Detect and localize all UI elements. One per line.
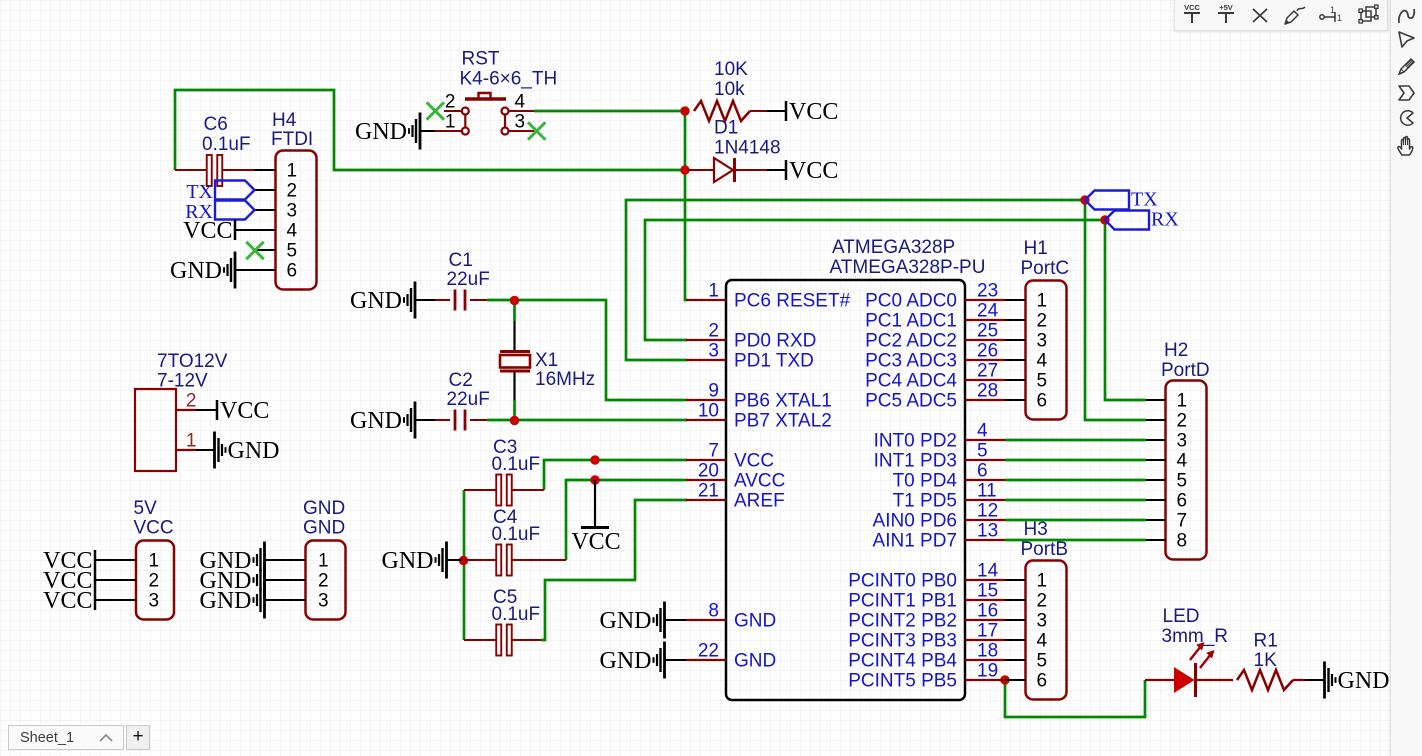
toolbar icon net port: [1318, 3, 1346, 27]
toolbar icon no-connect: [1248, 3, 1272, 27]
svg-text:RX: RX: [1151, 209, 1179, 231]
svg-text:TX: TX: [186, 181, 213, 203]
svg-text:VCC: VCC: [789, 158, 838, 184]
ground (GND header pin): [200, 562, 265, 599]
toolbar icon group: [1356, 3, 1382, 27]
svg-text:3: 3: [708, 341, 719, 362]
pin 21 (AREF): [686, 499, 726, 501]
svg-text:25: 25: [977, 321, 998, 342]
svg-text:AREF: AREF: [734, 491, 785, 512]
svg-text:VCC: VCC: [734, 451, 774, 472]
svg-text:5: 5: [1177, 471, 1188, 492]
crystal X1 16MHz: [500, 321, 595, 400]
svg-text:2: 2: [186, 391, 197, 412]
node AVCC junction: [590, 475, 599, 484]
svg-text:GND: GND: [350, 408, 402, 434]
svg-text:C1: C1: [449, 250, 473, 271]
svg-text:6: 6: [977, 461, 988, 482]
pin 22 (GND): [686, 659, 726, 661]
pin 11 (T1 PD5): [965, 499, 1005, 501]
svg-text:22: 22: [698, 641, 719, 662]
svg-text:GND: GND: [350, 288, 402, 314]
capacitor C5 0.1uF: [464, 587, 541, 656]
svg-text:2: 2: [708, 321, 719, 342]
ground (GND header pin): [200, 542, 265, 579]
svg-text:PCINT5 PB5: PCINT5 PB5: [848, 671, 957, 692]
svg-text:PC6 RESET#: PC6 RESET#: [734, 291, 851, 312]
sidebar icon hand: [1395, 135, 1418, 157]
svg-text:1: 1: [287, 161, 298, 182]
svg-text:GND: GND: [355, 119, 407, 145]
svg-text:0.1uF: 0.1uF: [202, 134, 251, 155]
no-connect X (H4 pin 5): [246, 242, 263, 259]
svg-text:4: 4: [1037, 631, 1048, 652]
svg-text:2: 2: [1177, 411, 1188, 432]
no-connect X (RST pin 2): [427, 102, 444, 119]
svg-text:27: 27: [977, 361, 998, 382]
capacitor C4 0.1uF: [464, 507, 566, 576]
pin 25 (PC2 ADC2): [965, 339, 1005, 341]
svg-text:ATMEGA328P: ATMEGA328P: [832, 237, 955, 258]
diode D1 1N4148: [687, 118, 786, 183]
svg-text:2: 2: [149, 571, 160, 592]
svg-text:VCC: VCC: [183, 218, 232, 244]
svg-text:5: 5: [977, 441, 988, 462]
pin 3 (PD1 TXD): [686, 359, 726, 361]
svg-text:7TO12V: 7TO12V: [157, 351, 228, 372]
ground (C1): [350, 282, 435, 319]
svg-text:4: 4: [515, 92, 526, 113]
pin 6 (T0 PD4): [965, 479, 1005, 481]
svg-text:5: 5: [1037, 371, 1048, 392]
svg-text:INT0 PD2: INT0 PD2: [874, 431, 957, 452]
svg-text:PC0 ADC0: PC0 ADC0: [865, 291, 957, 312]
pin 20 (AVCC): [686, 479, 726, 481]
net port VCC (5V header pin): [43, 568, 95, 594]
svg-text:1: 1: [318, 551, 329, 572]
capacitor C6: [175, 114, 254, 186]
svg-text:5V: 5V: [134, 498, 158, 519]
wire: reset node vertical to MCU pin 1: [685, 111, 687, 300]
svg-text:ATMEGA328P-PU: ATMEGA328P-PU: [830, 257, 986, 278]
pin 23 (PC0 ADC0): [965, 299, 1005, 301]
svg-text:H3: H3: [1024, 519, 1048, 540]
pin 4 (INT0 PD2): [965, 439, 1005, 441]
svg-text:10k: 10k: [714, 79, 745, 100]
svg-text:PB6 XTAL1: PB6 XTAL1: [734, 391, 832, 412]
pin 13 (AIN1 PD7): [965, 539, 1005, 541]
wire: C2 to XTAL2 (MCU pin 10): [487, 419, 687, 422]
pin 17 (PCINT3 PB3): [965, 639, 1005, 641]
net port VCC (down, at AVCC node): [571, 480, 620, 555]
sidebar icon pencil: [1397, 56, 1417, 76]
node TX junction: [1080, 195, 1089, 204]
pin 12 (AIN0 PD6): [965, 519, 1005, 521]
net port VCC (10K right): [786, 99, 838, 125]
svg-text:2: 2: [318, 571, 329, 592]
ground (H4 pin 6): [170, 252, 255, 289]
sidebar icon flag: [1397, 85, 1416, 101]
svg-text:7: 7: [1177, 511, 1188, 532]
pin 2 (PD0 RXD): [686, 339, 726, 341]
no-connect X (RST pin 3): [528, 122, 545, 139]
svg-text:4: 4: [1177, 451, 1188, 472]
svg-text:1: 1: [1337, 13, 1342, 23]
toolbar icon VCC net port: [1180, 3, 1204, 27]
svg-text:GND: GND: [1338, 668, 1390, 694]
connector H1 PortC: [1005, 238, 1069, 420]
svg-text:26: 26: [977, 341, 998, 362]
svg-text:18: 18: [977, 641, 998, 662]
svg-text:6: 6: [1177, 491, 1188, 512]
capacitor C2 22uF: [435, 370, 490, 431]
svg-text:3: 3: [1177, 431, 1188, 452]
svg-text:1: 1: [186, 431, 197, 452]
pin 16 (PCINT2 PB2): [965, 619, 1005, 621]
svg-text:K4-6×6_TH: K4-6×6_TH: [460, 69, 558, 90]
svg-text:GND: GND: [600, 608, 652, 634]
net port VCC (5V header pin): [43, 588, 95, 614]
svg-text:2: 2: [1037, 311, 1048, 332]
svg-text:C2: C2: [449, 370, 473, 391]
svg-text:3: 3: [1037, 331, 1048, 352]
svg-text:PCINT0 PB0: PCINT0 PB0: [848, 571, 957, 592]
sidebar icon arc: [1398, 110, 1416, 126]
svg-text:24: 24: [977, 301, 999, 322]
svg-text:PortD: PortD: [1161, 360, 1210, 381]
svg-text:2: 2: [445, 92, 456, 113]
pin 10 (PB7 XTAL2): [686, 419, 726, 421]
pin 15 (PCINT1 PB1): [965, 599, 1005, 601]
net port VCC (5V header pin): [43, 548, 95, 574]
node C1/XTAL1 junction: [510, 296, 519, 305]
svg-text:AIN1 PD7: AIN1 PD7: [873, 531, 957, 552]
net flag RX (H4 pin 3): [185, 201, 254, 224]
svg-text:GND: GND: [170, 258, 222, 284]
wire: C3/C4/C5 left vertical bus: [463, 490, 466, 640]
svg-text:0.1uF: 0.1uF: [492, 524, 541, 545]
svg-text:LED: LED: [1163, 606, 1200, 627]
ground (R1 right): [1325, 662, 1390, 699]
svg-text:GND: GND: [600, 648, 652, 674]
svg-text:GND: GND: [734, 651, 776, 672]
net port VCC (7TO12V pin 2): [217, 398, 269, 424]
ground (7TO12V pin 1): [215, 432, 280, 469]
svg-text:PC5 ADC5: PC5 ADC5: [865, 391, 957, 412]
pushbutton RST K4-6x6_TH: [435, 49, 557, 135]
svg-text:PortC: PortC: [1021, 258, 1070, 279]
svg-text:RST: RST: [462, 49, 500, 70]
net flag TX (to H2): [1085, 189, 1158, 211]
svg-text:PortB: PortB: [1021, 539, 1069, 560]
pin 26 (PC3 ADC3): [965, 359, 1005, 361]
wire: crystal top stub: [513, 298, 516, 321]
svg-text:1: 1: [1037, 571, 1048, 592]
connector H2 PortD: [1146, 340, 1210, 560]
svg-text:3: 3: [149, 591, 160, 612]
svg-text:PCINT4 PB4: PCINT4 PB4: [848, 651, 957, 672]
svg-text:11: 11: [977, 481, 997, 502]
connector 5V VCC header: [96, 498, 174, 620]
svg-text:14: 14: [977, 561, 999, 582]
capacitor C3 0.1uF: [464, 437, 544, 506]
svg-text:21: 21: [698, 481, 719, 502]
svg-text:0.1uF: 0.1uF: [492, 604, 541, 625]
svg-text:13: 13: [977, 521, 998, 542]
wires: MCU PD2-PD7 to H2 pins 3-8: [1005, 439, 1146, 442]
svg-text:FTDI: FTDI: [271, 129, 313, 150]
svg-text:16: 16: [977, 601, 998, 622]
wire: C3 right up to VCC node: [544, 460, 687, 490]
svg-text:H1: H1: [1024, 238, 1048, 259]
svg-text:H2: H2: [1164, 340, 1188, 361]
wire: AREF net from MCU pin 21 to C5: [541, 500, 687, 640]
ground (C2): [350, 402, 435, 439]
svg-text:PCINT2 PB2: PCINT2 PB2: [848, 611, 957, 632]
svg-text:6: 6: [1037, 671, 1048, 692]
svg-text:4: 4: [1037, 351, 1048, 372]
svg-text:T1 PD5: T1 PD5: [893, 491, 957, 512]
connector GND header: [265, 498, 346, 620]
svg-text:16MHz: 16MHz: [535, 369, 595, 390]
wire: MCU pin 19 to LED anode: [1005, 680, 1145, 717]
pin 7 (VCC): [686, 459, 726, 461]
wire: TX flag down to H2 pin 2: [1085, 200, 1146, 420]
svg-text:2: 2: [1037, 591, 1048, 612]
wire: C1 to XTAL1 node: [487, 300, 687, 400]
svg-text:VCC: VCC: [220, 398, 269, 424]
wire: RXD net from MCU pin 2 up to RX flag: [645, 220, 1105, 340]
connector H4 FTDI: [254, 110, 317, 290]
svg-text:PC1 ADC1: PC1 ADC1: [865, 311, 957, 332]
svg-text:1: 1: [445, 112, 456, 133]
svg-text:1: 1: [1177, 391, 1188, 412]
pin 5 (INT1 PD3): [965, 459, 1005, 461]
svg-text:R1: R1: [1254, 631, 1278, 652]
net flag TX (H4 pin 2): [186, 181, 254, 204]
pin 18 (PCINT4 PB4): [965, 659, 1005, 661]
svg-text:GND: GND: [382, 548, 434, 574]
ground (GND header pin): [200, 582, 265, 619]
net port VCC (D1 cathode): [786, 158, 838, 184]
svg-text:4: 4: [977, 421, 988, 442]
svg-text:20: 20: [698, 461, 719, 482]
connector 7TO12V power jack: [135, 351, 228, 471]
wire: crystal bottom stub: [513, 400, 516, 422]
node C2/XTAL2 junction: [510, 416, 519, 425]
svg-text:7: 7: [708, 441, 719, 462]
svg-text:4: 4: [287, 221, 298, 242]
svg-text:VCC: VCC: [789, 99, 838, 125]
svg-text:10: 10: [698, 401, 719, 422]
svg-text:15: 15: [977, 581, 998, 602]
node RX junction: [1100, 215, 1109, 224]
wire: RX flag down to H2 pin 1: [1105, 220, 1146, 400]
svg-text:AVCC: AVCC: [734, 471, 785, 492]
svg-text:GND: GND: [228, 438, 280, 464]
pin 8 (GND): [686, 619, 726, 621]
node VCC junction: [590, 455, 599, 464]
pin 14 (PCINT0 PB0): [965, 579, 1005, 581]
svg-text:22uF: 22uF: [447, 269, 490, 290]
svg-text:PCINT1 PB1: PCINT1 PB1: [848, 591, 957, 612]
node reset/10K node: [680, 106, 689, 115]
node GND/C4 junction: [459, 556, 468, 565]
IC U1 ATMEGA328P-PU: [686, 237, 1005, 700]
svg-text:2: 2: [287, 181, 298, 202]
svg-text:PC4 ADC4: PC4 ADC4: [865, 371, 957, 392]
svg-text:PD1 TXD: PD1 TXD: [734, 351, 814, 372]
pin 19 (PCINT5 PB5): [965, 679, 1005, 681]
svg-text:H4: H4: [272, 110, 297, 131]
connector H3 PortB: [1005, 519, 1068, 700]
svg-text:1: 1: [1037, 291, 1048, 312]
net port VCC (H4 pin 4): [183, 218, 255, 244]
ground (RST pin 1): [355, 113, 435, 150]
wire: RST pin4 to reset node: [534, 110, 686, 113]
svg-text:TX: TX: [1131, 189, 1158, 211]
svg-text:+5V: +5V: [1219, 3, 1233, 12]
svg-text:8: 8: [1177, 531, 1188, 552]
svg-text:3: 3: [515, 112, 526, 133]
pin 9 (PB6 XTAL1): [686, 399, 726, 401]
svg-text:17: 17: [977, 621, 998, 642]
svg-text:3: 3: [1037, 611, 1048, 632]
svg-text:5: 5: [1037, 651, 1048, 672]
svg-text:10K: 10K: [714, 59, 748, 80]
svg-text:PC2 ADC2: PC2 ADC2: [865, 331, 957, 352]
LED D2 3mm_R: [1145, 606, 1233, 697]
node reset/D1 node: [680, 165, 689, 174]
svg-text:VCC: VCC: [1184, 3, 1200, 12]
net flag RX (to H2): [1105, 209, 1179, 231]
svg-text:23: 23: [977, 281, 998, 302]
svg-text:3: 3: [287, 201, 298, 222]
ground (C4 node): [382, 542, 463, 579]
svg-text:1: 1: [708, 281, 719, 302]
ground (MCU pin 8): [600, 602, 687, 639]
pin 1 (PC6 RESET#): [686, 299, 726, 301]
pin 28 (PC5 ADC5): [965, 399, 1005, 401]
svg-text:PD0 RXD: PD0 RXD: [734, 331, 816, 352]
svg-text:1K: 1K: [1254, 650, 1278, 671]
svg-text:C6: C6: [204, 114, 228, 135]
svg-text:VCC: VCC: [571, 529, 620, 555]
wire: TXD net from MCU pin 3 up to TX flag: [626, 200, 1085, 360]
svg-text:AIN0 PD6: AIN0 PD6: [873, 511, 957, 532]
svg-text:GND: GND: [200, 588, 252, 614]
svg-text:12: 12: [977, 501, 998, 522]
svg-text:3mm_R: 3mm_R: [1162, 626, 1229, 647]
svg-text:3: 3: [318, 591, 329, 612]
svg-text:T0 PD4: T0 PD4: [893, 471, 958, 492]
svg-text:5: 5: [287, 241, 298, 262]
svg-text:28: 28: [977, 381, 998, 402]
svg-text:INT1 PD3: INT1 PD3: [874, 451, 957, 472]
svg-text:6: 6: [287, 261, 298, 282]
svg-text:8: 8: [708, 601, 719, 622]
sidebar icon wire (s-curve): [1397, 6, 1417, 26]
svg-text:GND: GND: [303, 518, 345, 539]
wire: C4 right up to AVCC node: [566, 480, 687, 560]
svg-text:VCC: VCC: [43, 588, 92, 614]
svg-text:X1: X1: [535, 350, 558, 371]
resistor R1 1K: [1237, 631, 1325, 691]
svg-text:VCC: VCC: [134, 518, 174, 539]
svg-text:1: 1: [149, 551, 160, 572]
pin 24 (PC1 ADC1): [965, 319, 1005, 321]
svg-text:GND: GND: [734, 611, 776, 632]
svg-text:GND: GND: [303, 498, 345, 519]
pin 27 (PC4 ADC4): [965, 379, 1005, 381]
capacitor C1 22uF: [435, 250, 490, 311]
svg-text:22uF: 22uF: [447, 389, 490, 410]
svg-text:1N4148: 1N4148: [714, 138, 781, 159]
wire: C6 to reset net loop: [175, 90, 684, 170]
toolbar icon wire/pen tool: [1282, 3, 1308, 27]
sidebar icon arrow: [1397, 30, 1416, 49]
ground (MCU pin 22): [600, 642, 687, 679]
svg-text:D1: D1: [714, 118, 738, 139]
node PB5/LED junction: [1000, 675, 1009, 684]
resistor 10K: [694, 59, 786, 121]
svg-text:9: 9: [708, 381, 719, 402]
toolbar icon +5V net port: [1214, 3, 1238, 27]
svg-text:7-12V: 7-12V: [157, 371, 208, 392]
svg-text:PC3 ADC3: PC3 ADC3: [865, 351, 957, 372]
svg-text:19: 19: [977, 661, 998, 682]
svg-text:PB7 XTAL2: PB7 XTAL2: [734, 411, 832, 432]
svg-text:0.1uF: 0.1uF: [492, 454, 541, 475]
svg-text:PCINT3 PB3: PCINT3 PB3: [848, 631, 957, 652]
svg-text:6: 6: [1037, 391, 1048, 412]
